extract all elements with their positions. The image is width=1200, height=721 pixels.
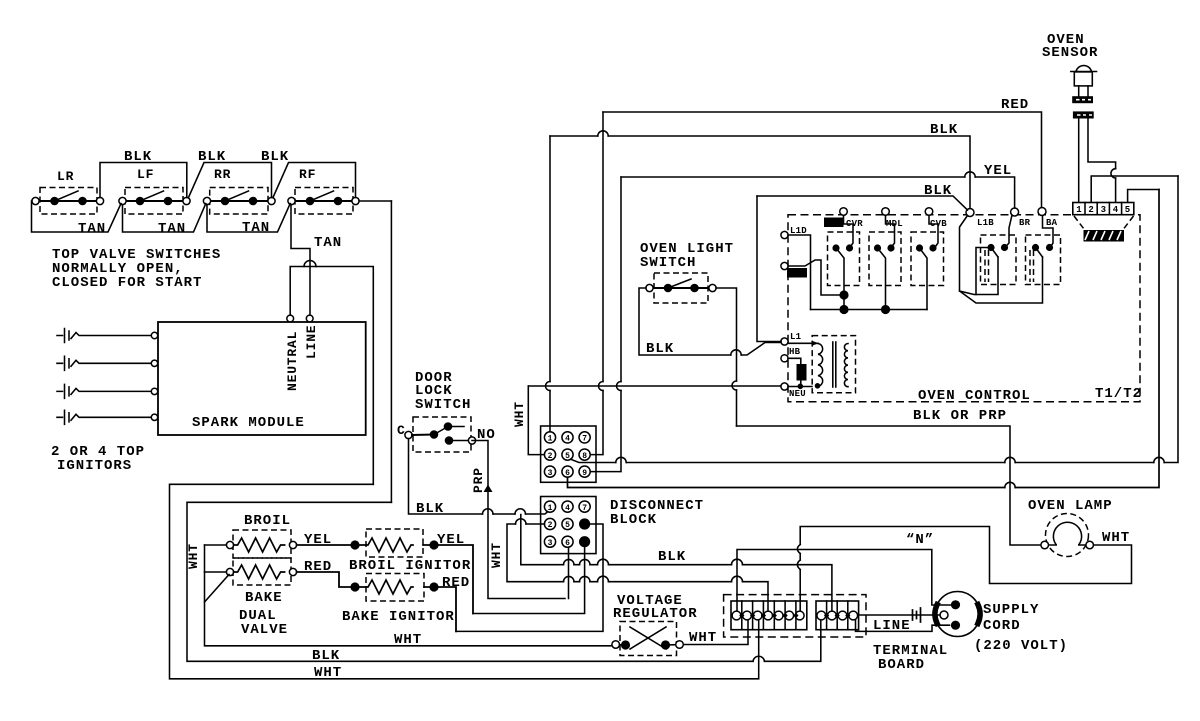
wire YEL broil valve to broil ignitor [297, 532, 366, 550]
svg-text:2: 2 [548, 521, 553, 530]
svg-text:BLK: BLK [658, 549, 686, 565]
bake valve coil [226, 558, 296, 638]
svg-text:BR: BR [1019, 218, 1031, 228]
svg-text:LF: LF [137, 167, 154, 182]
voltage regulator [612, 593, 698, 656]
oven control terminal L1B [960, 209, 1043, 304]
svg-text:TAN: TAN [242, 220, 270, 236]
svg-text:YEL: YEL [437, 532, 465, 548]
spark module NEUTRAL terminal [287, 315, 294, 322]
svg-text:RED: RED [304, 559, 332, 575]
wire YEL broil ignitor to disconnect pin 9 [423, 532, 473, 614]
relay broil (box 5) [1026, 235, 1061, 285]
wire BLK OR PRP (to oven lamp left) [737, 408, 1041, 545]
svg-text:WHT: WHT [394, 632, 422, 648]
ignitor 4 [57, 410, 158, 424]
svg-text:WHT: WHT [314, 665, 342, 681]
upper connector block (9 pin) [541, 426, 596, 482]
svg-text:BLK: BLK [924, 183, 952, 199]
svg-text:4: 4 [565, 504, 570, 513]
wire BLK branch to terminal board group2 pin 2 [521, 515, 832, 612]
svg-text:BLK: BLK [261, 149, 289, 165]
oven control terminal HB [781, 347, 807, 389]
wire BLK (upper connector pin 1 to oven control L1B) [550, 122, 970, 209]
svg-text:NEUTRAL: NEUTRAL [285, 331, 300, 391]
oven control terminal NEU [781, 383, 812, 399]
wire RED bake ignitor to disconnect pin 8 line [424, 575, 470, 631]
wire BLK top feed to L1B [757, 183, 968, 210]
wire RED bake valve to bake ignitor [297, 559, 366, 592]
wire disconnect pin 9 riser to YEL line [473, 548, 585, 614]
svg-text:BLK OR PRP: BLK OR PRP [913, 408, 1007, 424]
svg-text:5: 5 [1125, 205, 1131, 215]
ignitor 1 (top ignitor spark gap) [57, 329, 158, 343]
svg-text:L1A: L1A [790, 271, 804, 279]
wire BLK segment 1 (LR right to LF right) [100, 149, 187, 198]
wire N line (terminal board pin1 to supply cord top) [737, 550, 951, 612]
wire upper pin 6 to T1/T2 pin 5 (long line) [568, 190, 1160, 488]
svg-text:1: 1 [548, 504, 553, 513]
oven control dashed box [788, 215, 1142, 404]
svg-text:BAKE IGNITOR: BAKE IGNITOR [342, 609, 455, 625]
svg-text:REGULATOR: REGULATOR [613, 606, 698, 622]
wire BLK segment 3 (RR right to RF right) [261, 149, 356, 198]
svg-text:BROIL: BROIL [244, 513, 291, 529]
note text: 2 or 4 top ignitors [51, 444, 145, 474]
transformer [788, 336, 856, 393]
switch LR (top valve switch, left rear) [32, 169, 104, 214]
wire TAN segment 1 (LR left to LF left) [32, 201, 122, 237]
svg-text:L1B: L1B [977, 218, 994, 228]
svg-text:4: 4 [1113, 205, 1119, 215]
terminal board group 2 (4 terminals) [816, 601, 859, 630]
wire supply bottom to terminal board group 2 pin 4 [856, 620, 950, 631]
svg-text:HB: HB [789, 347, 801, 357]
wire LINE terminal board to supply cord center [860, 608, 940, 622]
svg-text:LR: LR [57, 169, 74, 184]
oven control terminal BA [1038, 208, 1058, 248]
svg-text:7: 7 [582, 435, 587, 444]
T1/T2 connector strip [1073, 203, 1134, 216]
svg-text:BLOCK: BLOCK [610, 512, 657, 528]
svg-text:T1/T2: T1/T2 [1095, 386, 1142, 402]
svg-text:SENSOR: SENSOR [1042, 45, 1098, 61]
relay CVB [911, 208, 947, 310]
wire disconnect pin 8 to RED line [456, 524, 603, 631]
terminal board dashed outline [724, 595, 949, 673]
svg-text:8: 8 [582, 521, 587, 530]
svg-text:L1: L1 [790, 332, 802, 342]
wire PRP from door lock NO down to disconnect pin 6 line [471, 441, 565, 599]
wire upper pin 5 to T1/T2 pin 2 (long line) [571, 176, 1179, 463]
spark module box [158, 322, 366, 435]
svg-text:“N”: “N” [906, 532, 934, 548]
svg-text:BOARD: BOARD [878, 657, 925, 673]
svg-text:RR: RR [214, 167, 231, 182]
svg-text:YEL: YEL [304, 532, 332, 548]
svg-text:PRP: PRP [471, 467, 486, 493]
svg-text:2: 2 [548, 452, 553, 461]
svg-text:CORD: CORD [983, 618, 1021, 634]
wire WHT outer bottom loop (neutral net to terminal board pin 3) [170, 484, 759, 681]
svg-text:SWITCH: SWITCH [415, 397, 471, 413]
oven lamp [1028, 498, 1130, 557]
svg-text:TAN: TAN [314, 235, 342, 251]
wire disconnect pin 6 riser [568, 548, 570, 599]
door lock switch [397, 370, 496, 452]
svg-text:BROIL IGNITOR: BROIL IGNITOR [349, 558, 471, 574]
oven control terminal L1 [757, 196, 802, 345]
svg-text:RED: RED [1001, 97, 1029, 113]
svg-text:RF: RF [299, 167, 316, 182]
wire TAN segment 2 (LF left to RR left) [123, 204, 206, 238]
terminal board contact marks [739, 613, 850, 619]
svg-text:WHT: WHT [689, 630, 717, 646]
svg-text:IGNITORS: IGNITORS [57, 458, 132, 474]
terminal board group 1 (7 terminals) [731, 601, 807, 630]
wire hump on neutral horizontal over TAN vertical [304, 261, 316, 267]
wire BLK segment 2 (LF right to RR right) [189, 149, 272, 198]
wire upper pin 1 riser (BLK net) [549, 136, 551, 432]
wire WHT neutral line to oven control NEU [528, 385, 781, 387]
svg-text:1: 1 [548, 435, 553, 444]
svg-text:BLK: BLK [124, 149, 152, 165]
svg-text:2: 2 [1088, 205, 1094, 215]
svg-text:SUT: SUT [826, 221, 840, 229]
svg-text:1: 1 [1076, 205, 1082, 215]
svg-text:LINE: LINE [304, 325, 319, 359]
svg-text:9: 9 [582, 469, 587, 478]
svg-text:VALVE: VALVE [241, 622, 288, 638]
wire BLK inner bottom loop (RF switch lead to terminal board group2 pin 1) [187, 502, 821, 664]
svg-text:SPARK MODULE: SPARK MODULE [192, 415, 305, 431]
svg-text:CLOSED FOR START: CLOSED FOR START [52, 275, 202, 291]
svg-text:WHT: WHT [512, 401, 527, 427]
svg-text:WHT: WHT [489, 542, 504, 568]
ignitor 3 [57, 384, 158, 398]
T1/T2 funnel and cable [1074, 216, 1134, 242]
oven control terminal L1D [781, 226, 811, 310]
svg-text:BLK: BLK [416, 501, 444, 517]
svg-text:YEL: YEL [984, 163, 1012, 179]
wire disconnect pin 2 to terminal board pin 4 [507, 519, 768, 611]
switch LF (top valve switch, left front) [119, 167, 190, 214]
switch RF (top valve switch, right front) [288, 167, 359, 214]
svg-text:BAKE: BAKE [245, 590, 283, 606]
wire T1/T2 pin 5 riser [1128, 190, 1159, 203]
switch RR (top valve switch, right rear) [203, 167, 275, 214]
svg-text:SWITCH: SWITCH [640, 255, 696, 271]
supply cord [935, 592, 1068, 655]
broil valve coil [226, 513, 296, 558]
svg-text:BLK: BLK [198, 149, 226, 165]
oven sensor [1042, 32, 1098, 119]
wire upper pin 2 WHT west stub [528, 386, 544, 455]
svg-text:TAN: TAN [158, 221, 186, 237]
wire RF right to down-lead [359, 201, 391, 502]
jog marks on lamp drop wire [797, 545, 800, 570]
broil ignitor [349, 529, 471, 574]
wire YEL (upper connector pin 9 to oven control BR) [621, 163, 1015, 208]
wire TAN segment 3 (RR left to RF left) [207, 204, 290, 237]
oven control relay bus [811, 290, 928, 314]
relay bake (box 4) [976, 235, 1016, 295]
bake ignitor [342, 574, 455, 626]
svg-text:7: 7 [582, 504, 587, 513]
svg-text:3: 3 [548, 539, 553, 548]
wire WHT voltage regulator to terminal board pin 2 [683, 620, 748, 646]
svg-text:4: 4 [565, 435, 570, 444]
note text: top valve switches [52, 247, 221, 291]
oven light switch [640, 241, 734, 303]
svg-text:3: 3 [1101, 205, 1107, 215]
wire BLK from door lock C to disconnect pin 1 [409, 439, 549, 517]
wire RED (upper connector pin 8 to oven control BA) [603, 97, 1042, 208]
relay MDL [869, 208, 903, 310]
oven control terminal L1A [781, 260, 841, 295]
wire oven light switch right to BLK OR PRP line [716, 288, 737, 426]
relay CVR (SUT) [824, 208, 863, 310]
svg-text:(220 VOLT): (220 VOLT) [974, 638, 1068, 654]
svg-text:SUPPLY: SUPPLY [983, 602, 1039, 618]
svg-text:RED: RED [442, 575, 470, 591]
svg-text:OVEN CONTROL: OVEN CONTROL [918, 388, 1031, 404]
svg-text:TAN: TAN [78, 221, 106, 237]
wire oven sensor left lead to T1/T2 pin 1 [1078, 119, 1080, 203]
svg-text:BLK: BLK [930, 122, 958, 138]
wire upper pin 8 riser (RED net east stub) [590, 112, 603, 455]
svg-text:BLK: BLK [312, 648, 340, 664]
wire WHT valve-common to voltage regulator (bottom) [186, 543, 612, 648]
wire upper pin 9 riser (YEL net east stub) [590, 177, 621, 472]
svg-text:6: 6 [565, 539, 570, 548]
spark module LINE terminal [306, 315, 313, 322]
svg-text:5: 5 [565, 521, 570, 530]
svg-text:9: 9 [582, 539, 587, 548]
svg-text:WHT: WHT [186, 543, 201, 569]
svg-text:WHT: WHT [1102, 530, 1130, 546]
svg-text:BLK: BLK [646, 341, 674, 357]
svg-text:8: 8 [582, 452, 587, 461]
wire BLK oven light switch to L1 terminal [639, 288, 781, 357]
disconnect block (9 pin) [541, 497, 704, 554]
svg-text:NEU: NEU [789, 389, 806, 399]
wire TAN (RF left down to spark module LINE input) [291, 205, 342, 316]
wire oven lamp right loop to terminal board pin 7 [800, 527, 1131, 612]
svg-text:BA: BA [1046, 218, 1058, 228]
wire T1/T2 pin 2 riser [1091, 176, 1178, 202]
svg-text:5: 5 [565, 452, 570, 461]
wire oven sensor right lead to T1/T2 pin 4 [1088, 119, 1116, 203]
wire neutral net (spark NEUTRAL up, over, down right side to bottom left loop) [290, 267, 373, 485]
wire valve commons (left side WHT) [205, 545, 230, 602]
oven control terminal BR [1006, 208, 1031, 247]
svg-text:3: 3 [548, 469, 553, 478]
svg-text:OVEN LAMP: OVEN LAMP [1028, 498, 1113, 514]
ignitor 2 [57, 356, 158, 370]
